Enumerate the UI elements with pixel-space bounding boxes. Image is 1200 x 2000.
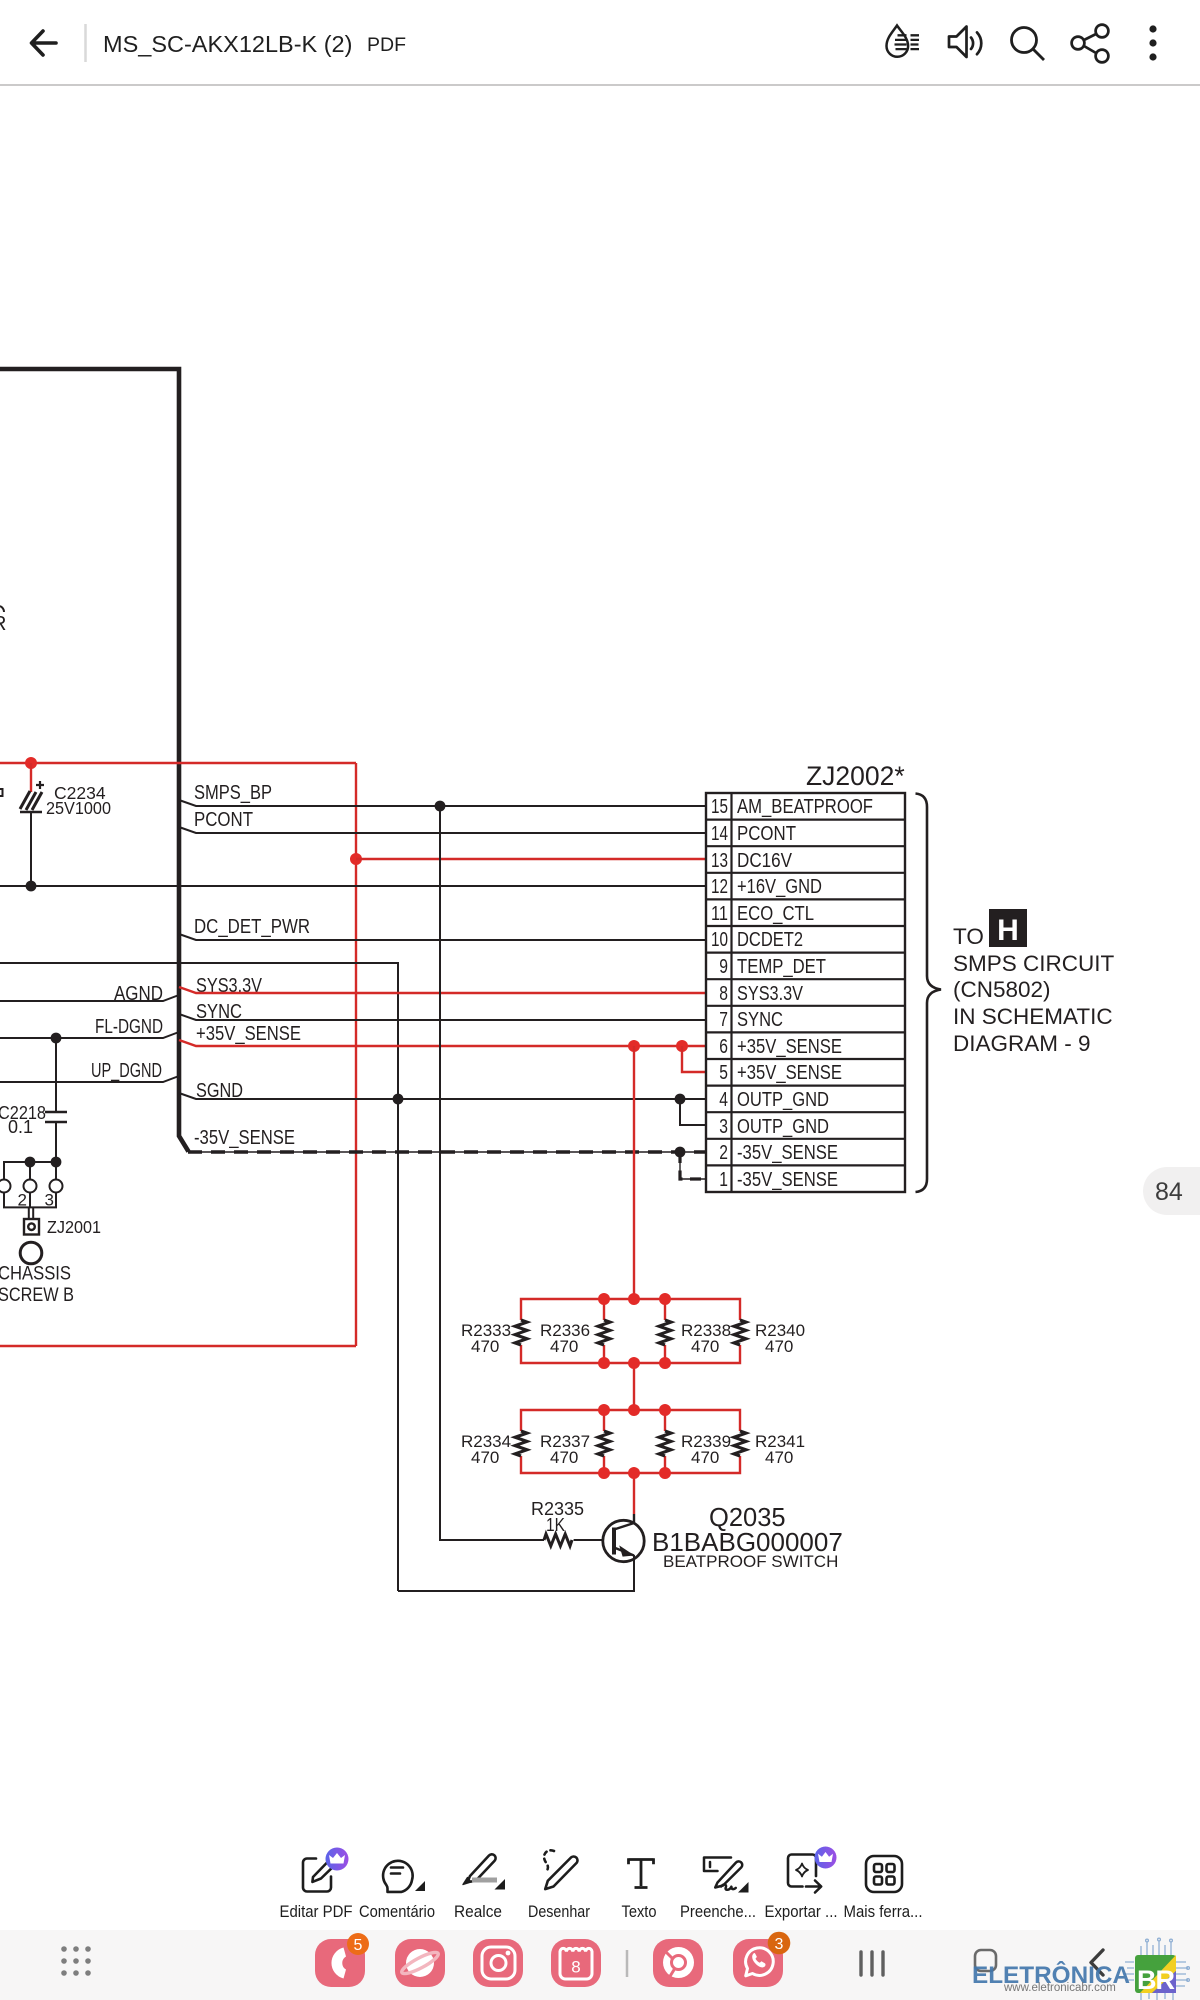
svg-text:AM_BEATPROOF: AM_BEATPROOF <box>737 796 873 818</box>
instagram app icon <box>473 1939 523 1987</box>
svg-text:2: 2 <box>18 1191 27 1210</box>
resistor R2335 <box>544 1534 572 1546</box>
svg-text:BEATPROOF SWITCH: BEATPROOF SWITCH <box>663 1552 838 1571</box>
svg-text:470: 470 <box>550 1337 578 1356</box>
3-dot menu <box>1149 25 1156 60</box>
node junction -35V pin2 <box>675 1147 686 1158</box>
wire SMPS_BP <box>179 800 706 806</box>
wire +16V_GND <box>0 885 706 887</box>
wire base run x440 <box>440 806 544 1540</box>
node junction black C2234 <box>26 881 37 892</box>
wire emitter <box>398 1555 634 1591</box>
page number bubble <box>1143 1167 1200 1215</box>
title divider <box>84 24 87 62</box>
resistor R2341 <box>734 1431 746 1456</box>
connector ZJ2002 <box>706 761 905 1192</box>
recent apps <box>861 1952 883 1975</box>
svg-text:14: 14 <box>711 823 728 845</box>
Editar PDF icon <box>303 1858 336 1891</box>
resistor R2337 <box>598 1431 610 1456</box>
svg-text:3: 3 <box>719 1116 728 1138</box>
Realce icon <box>463 1854 496 1884</box>
brace to SMPS <box>916 794 942 1193</box>
capacitor C2218 <box>0 1038 67 1162</box>
node junction SGND x398 <box>393 1094 404 1105</box>
svg-text:6: 6 <box>719 1036 728 1058</box>
browser app icon <box>395 1939 445 1987</box>
svg-text:12: 12 <box>711 876 728 898</box>
svg-text:1: 1 <box>719 1169 728 1191</box>
svg-text:10: 10 <box>711 929 728 951</box>
resistor R2333 <box>515 1320 527 1345</box>
svg-text:Exportar ...: Exportar ... <box>765 1903 838 1921</box>
wire FL-DGND <box>0 1032 179 1038</box>
svg-text:CHASSIS: CHASSIS <box>0 1264 71 1285</box>
svg-text:(CN5802): (CN5802) <box>953 977 1051 1002</box>
svg-text:2: 2 <box>719 1142 728 1164</box>
svg-text:5: 5 <box>719 1062 728 1084</box>
thick border frame <box>0 369 189 1152</box>
resistor R2340 <box>734 1320 746 1345</box>
svg-text:UP_DGND: UP_DGND <box>91 1060 162 1082</box>
Desenhar icon <box>544 1850 577 1889</box>
back arrow <box>32 31 57 55</box>
Preencher e assinar icon <box>704 1858 742 1890</box>
chrome app icon <box>653 1939 703 1987</box>
wire branch pin3 <box>680 1099 706 1125</box>
wire DC16V red <box>356 858 706 860</box>
clipped glyph fragment mid <box>0 789 3 796</box>
transistor Q2035 <box>603 1514 644 1562</box>
node junction FL-DGND <box>51 1033 62 1044</box>
liquid mode icon <box>887 26 920 57</box>
wire red vertical x356 <box>355 763 357 1346</box>
svg-text:13: 13 <box>711 850 728 872</box>
svg-text:8: 8 <box>571 1958 580 1977</box>
wire branch pin1 <box>680 1152 706 1179</box>
svg-text:470: 470 <box>550 1448 578 1467</box>
node junction SMPS_BP <box>435 801 446 812</box>
svg-text:DC16V: DC16V <box>737 850 793 872</box>
wire branch pin5 red <box>682 1046 706 1072</box>
svg-text:ZJ2002*: ZJ2002* <box>806 761 905 791</box>
svg-text:-35V_SENSE: -35V_SENSE <box>194 1127 295 1149</box>
svg-text:SCREW B: SCREW B <box>0 1285 74 1306</box>
svg-text:ZJ2001: ZJ2001 <box>47 1217 101 1237</box>
svg-text:TO: TO <box>953 924 984 949</box>
back chevron <box>1091 1950 1103 1975</box>
svg-text:+35V_SENSE: +35V_SENSE <box>737 1062 842 1084</box>
svg-text:Desenhar: Desenhar <box>528 1903 590 1921</box>
svg-text:11: 11 <box>711 903 728 925</box>
wire SYS3.3V red <box>179 987 706 993</box>
svg-text:TEMP_DET: TEMP_DET <box>737 956 826 978</box>
app drawer dots <box>61 1946 91 1976</box>
wire red feed x634 <box>633 1046 635 1514</box>
search icon <box>1012 28 1045 61</box>
watermark ELETRONICA BR <box>972 1955 1176 1995</box>
watermark circuitry <box>1125 1938 1189 2000</box>
svg-text:DIAGRAM - 9: DIAGRAM - 9 <box>953 1031 1091 1056</box>
svg-text:7: 7 <box>719 1009 728 1031</box>
svg-text:+35V_SENSE: +35V_SENSE <box>196 1023 301 1045</box>
wire ZJ2001 top rail <box>3 1161 56 1163</box>
svg-text:470: 470 <box>691 1448 719 1467</box>
wire emitter ground run <box>0 963 398 1591</box>
svg-text:Mais ferra...: Mais ferra... <box>844 1903 923 1921</box>
svg-text:Texto: Texto <box>622 1903 657 1921</box>
svg-text:9: 9 <box>719 956 728 978</box>
svg-text:470: 470 <box>765 1448 793 1467</box>
svg-text:+16V_GND: +16V_GND <box>737 876 822 898</box>
svg-text:FL-DGND: FL-DGND <box>95 1016 163 1038</box>
separator <box>626 1950 629 1977</box>
svg-text:DC_DET_PWR: DC_DET_PWR <box>194 916 310 938</box>
share icon <box>1072 25 1109 63</box>
svg-text:H: H <box>997 914 1019 947</box>
svg-text:Preenche...: Preenche... <box>680 1903 756 1921</box>
Exportar PDF icon <box>788 1855 821 1893</box>
resistor bank rails 2 <box>521 1410 740 1431</box>
Comentario icon <box>383 1861 413 1892</box>
whatsapp app icon <box>733 1932 790 1987</box>
Texto icon <box>629 1858 654 1887</box>
svg-text:-35V_SENSE: -35V_SENSE <box>737 1169 838 1191</box>
calendar app icon <box>551 1939 601 1987</box>
svg-text:R: R <box>0 613 6 635</box>
svg-text:SYNC: SYNC <box>737 1009 783 1031</box>
svg-text:0.1: 0.1 <box>8 1117 33 1137</box>
speaker icon <box>949 27 981 58</box>
svg-text:8: 8 <box>719 983 728 1005</box>
node junction rail b <box>51 1157 62 1168</box>
svg-text:DCDET2: DCDET2 <box>737 929 803 951</box>
node junction +35V pin6 <box>676 1040 688 1052</box>
node junctions bank2 <box>598 1404 671 1479</box>
svg-text:1K: 1K <box>546 1515 565 1535</box>
chassis screw circle <box>20 1242 42 1264</box>
node junctions bank1 <box>598 1293 671 1369</box>
svg-text:IN SCHEMATIC: IN SCHEMATIC <box>953 1004 1113 1029</box>
clipped glyph fragment top <box>0 606 4 612</box>
node junction rail a <box>25 1157 36 1168</box>
node junction SGND pin4 <box>675 1094 686 1105</box>
wire base lead <box>574 1539 603 1541</box>
Mais ferramentas icon <box>866 1856 902 1892</box>
wire AGND <box>0 995 179 1001</box>
svg-text:470: 470 <box>691 1337 719 1356</box>
svg-text:OUTP_GND: OUTP_GND <box>737 1089 829 1111</box>
svg-text:PCONT: PCONT <box>737 823 796 845</box>
svg-text:470: 470 <box>471 1448 499 1467</box>
resistor R2339 <box>659 1431 671 1456</box>
wire SGND <box>179 1093 706 1099</box>
connector ZJ2001 pins <box>0 1162 63 1220</box>
svg-text:Comentário: Comentário <box>359 1903 435 1921</box>
svg-text:SMPS_BP: SMPS_BP <box>194 782 272 804</box>
wire SYNC <box>179 1014 706 1020</box>
wire PCONT <box>179 827 706 833</box>
wire red bottom return <box>0 1345 356 1347</box>
svg-text:Editar PDF: Editar PDF <box>280 1903 353 1921</box>
node junction red DC16V <box>350 853 362 865</box>
svg-text:15: 15 <box>711 796 728 818</box>
svg-text:+35V_SENSE: +35V_SENSE <box>737 1036 842 1058</box>
wire red top rail <box>0 762 356 764</box>
svg-text:www.eletronicabr.com: www.eletronicabr.com <box>1003 1982 1116 1994</box>
phone app icon <box>315 1933 369 1987</box>
wire UP_DGND <box>0 1076 179 1082</box>
resistor bank rails top (red) <box>521 1299 740 1320</box>
svg-text:3: 3 <box>45 1191 54 1210</box>
svg-text:470: 470 <box>471 1337 499 1356</box>
svg-text:OUTP_GND: OUTP_GND <box>737 1116 829 1138</box>
resistor R2334 <box>515 1431 527 1456</box>
resistor R2338 <box>659 1320 671 1345</box>
svg-text:BR: BR <box>1137 1965 1174 1995</box>
capacitor C2234 <box>20 763 111 886</box>
wire +35V_SENSE red <box>179 1040 706 1046</box>
svg-text:ECO_CTL: ECO_CTL <box>737 903 814 925</box>
svg-text:PCONT: PCONT <box>194 809 253 831</box>
home button <box>975 1950 996 1971</box>
wire DC_DET_PWR <box>179 934 706 940</box>
svg-text:SYS3.3V: SYS3.3V <box>737 983 804 1005</box>
svg-text:5: 5 <box>354 1937 363 1954</box>
svg-text:3: 3 <box>775 1936 784 1953</box>
svg-text:-35V_SENSE: -35V_SENSE <box>737 1142 838 1164</box>
svg-text:4: 4 <box>719 1089 728 1111</box>
svg-text:Realce: Realce <box>454 1903 502 1921</box>
svg-text:25V1000: 25V1000 <box>46 798 111 818</box>
svg-text:SMPS CIRCUIT: SMPS CIRCUIT <box>953 951 1115 976</box>
resistor R2336 <box>598 1320 610 1345</box>
screw terminal ZJ2001 <box>24 1217 101 1237</box>
svg-text:470: 470 <box>765 1337 793 1356</box>
node junction red <box>25 757 37 769</box>
wire -35V_SENSE dashed <box>188 1151 706 1153</box>
node junction +35V feed <box>628 1040 640 1052</box>
label TO H SMPS <box>953 909 1115 1056</box>
